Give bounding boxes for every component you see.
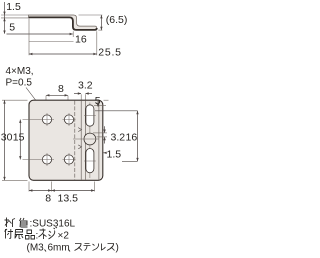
katakana ス <box>75 244 83 251</box>
dim (6.5) line with arrows <box>100 15 102 30</box>
katakana ス2 <box>107 244 115 251</box>
svg-text:15: 15 <box>13 131 25 143</box>
dim 8 top outside arrows <box>46 94 68 96</box>
slot centerline vertical <box>89 103 91 179</box>
svg-text:8: 8 <box>58 83 64 95</box>
dim 3.2 top extension lines <box>80 94 82 100</box>
svg-text:16: 16 <box>75 34 87 46</box>
katakana ジ <box>49 227 58 239</box>
bend line solid 2 <box>84 101 86 180</box>
dim 3.2 right extension lines <box>93 132 107 134</box>
svg-text:25.5: 25.5 <box>98 47 122 59</box>
extension line (6.5) bottom <box>98 29 102 31</box>
svg-text::: : <box>36 231 39 242</box>
svg-text:5: 5 <box>9 21 15 33</box>
comma 1 <box>45 250 47 252</box>
accessories row: kanji 付 strokes <box>5 229 14 239</box>
svg-text:3.2: 3.2 <box>111 132 126 144</box>
chevron mark upper <box>78 128 81 132</box>
dim 25.5 line with arrows <box>29 53 97 55</box>
bend line dashed <box>74 101 76 180</box>
svg-text:13.5: 13.5 <box>58 193 79 205</box>
partial second dim line <box>29 41 74 43</box>
slot bottom crosshair <box>84 160 96 162</box>
accessories row: kanji 属 strokes <box>15 230 23 239</box>
slot bottom <box>86 149 94 173</box>
svg-text:8: 8 <box>45 193 51 205</box>
svg-text:1.5: 1.5 <box>107 149 122 161</box>
chevron mark lower <box>78 145 81 149</box>
material row: kanji 材 strokes <box>5 218 16 228</box>
dim 16: long tail line with arrow pointing right at web <box>7 33 73 35</box>
dim 1.5 right leader <box>103 152 106 154</box>
svg-text:4×M3,: 4×M3, <box>6 66 34 77</box>
svg-text:1.5: 1.5 <box>6 1 21 13</box>
dim 5 right extension lines <box>104 99 109 101</box>
bracket part profile: plate + web + flange fill <box>29 15 97 30</box>
svg-text:30: 30 <box>1 131 13 143</box>
dim 16 extension line <box>72 31 74 37</box>
plate body <box>29 100 103 180</box>
katakana テ <box>84 244 91 251</box>
extension line plate bottom surface <box>1 17 29 19</box>
extension line plate top surface <box>1 14 29 16</box>
edge line right (thickness) <box>98 101 100 180</box>
dim 3.2 top outside arrows <box>74 93 81 95</box>
svg-text:16: 16 <box>126 132 138 144</box>
dim 5 right arrow <box>97 104 99 107</box>
svg-text::SUS316L: :SUS316L <box>30 219 76 230</box>
svg-text:6mm: 6mm <box>48 243 70 254</box>
dim 16 right bracket <box>95 111 138 162</box>
slot top <box>86 105 94 126</box>
dim 15 line with arrows <box>19 120 21 160</box>
hole bottom-left <box>42 155 51 164</box>
leader line to hole <box>26 88 46 114</box>
material row: kanji 質 strokes <box>20 218 28 227</box>
dim 30 line with arrows <box>4 100 6 180</box>
slot top crosshair <box>84 115 96 117</box>
svg-text:): ) <box>116 243 119 254</box>
katakana レ <box>102 244 106 251</box>
dim line stack left (1.5 and 5) <box>4 2 6 34</box>
bottom dim extension lines <box>28 182 30 192</box>
svg-text:×2: ×2 <box>58 231 70 242</box>
katakana ネ <box>39 229 47 240</box>
svg-text:(6.5): (6.5) <box>106 14 128 26</box>
svg-text:P=0.5: P=0.5 <box>6 78 33 89</box>
middle circle <box>84 133 96 145</box>
middle circle crosshair <box>73 138 99 140</box>
hole top-right <box>64 115 73 124</box>
comma 2 <box>69 250 71 252</box>
katakana ン <box>93 244 99 251</box>
dim 30 extension lines <box>2 99 28 101</box>
dim 3.2 right arrows <box>104 126 106 132</box>
plate bottom thick edge + web outer + flange bottom thick edge <box>29 17 97 30</box>
accessories row: kanji 品 strokes <box>26 230 35 239</box>
svg-text:(M3: (M3 <box>27 243 45 254</box>
hole top-left <box>42 115 51 124</box>
hole bottom-right <box>64 155 73 164</box>
extension line (6.5) top <box>79 14 103 16</box>
svg-text:3.2: 3.2 <box>78 80 93 92</box>
bend line solid <box>80 101 82 180</box>
dim 8 top extension lines <box>45 96 47 112</box>
bottom dim line with arrows <box>29 190 95 192</box>
dim 25.5 extension lines <box>28 19 30 56</box>
